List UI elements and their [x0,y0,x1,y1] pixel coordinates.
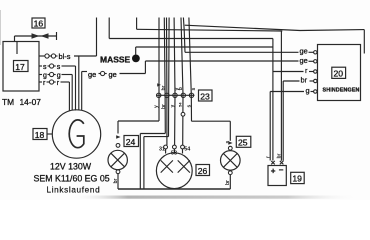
svg-text:54: 54 [178,102,183,107]
regulator pin labels [300,47,310,95]
svg-text:+: + [271,167,276,176]
svg-text:12V 130W: 12V 130W [50,162,92,172]
cluster wire column 3 [173,18,176,146]
wire MASSE up and right to battery plus column [136,47,273,55]
svg-text:g: g [43,72,47,79]
box 25 label [236,136,251,147]
box 23 label [199,90,213,101]
box 19 label [291,172,305,183]
lamp 24 (parking light) [108,144,127,174]
svg-text:ge: ge [300,56,308,65]
lamp 25 ground wire br [225,175,231,189]
svg-text:bl-s: bl-s [59,52,71,61]
svg-text:25: 25 [238,138,248,148]
svg-text:s: s [43,64,47,71]
svg-text:y: y [154,105,160,108]
plug connector symbol 16 [15,32,57,40]
lamp 24 ground wire br [113,174,119,189]
svg-text:Linkslaufend: Linkslaufend [47,186,101,195]
wire row bl-s with connector o-o [39,52,97,61]
svg-text:s: s [57,64,61,71]
headlight pin labels 31 58 54 [159,146,190,156]
wire row s-o-s [39,64,76,71]
inline connector on column 4 wire [181,112,185,116]
svg-text:16: 16 [34,19,44,29]
svg-text:−: − [279,166,284,175]
wire g down to generator [71,75,73,111]
scan edge left [0,10,1,45]
connector row circle 4 [181,93,185,97]
wire bl-s up to frame ground (top edge) [96,18,98,57]
svg-text:br: br [225,180,231,185]
cluster wire column 2 (triple) [164,18,169,146]
svg-text:ge: ge [109,70,117,79]
wire g from regulator down [270,92,314,161]
lamp 25 (tail light) [221,146,241,174]
wire r down to generator [68,82,70,111]
top feed wire H2 to battery plus column [109,18,273,39]
svg-text:54: 54 [184,146,190,152]
svg-text:MASSE: MASSE [100,54,131,64]
wire from connector 16 to box 17 [14,36,16,42]
svg-text:18: 18 [35,130,45,140]
connector row circle 2 [165,93,169,97]
regulator pin circles [314,51,317,94]
svg-text:SEM K11/60 EG 05: SEM K11/60 EG 05 [34,173,110,183]
top feed wire to right edge with end stub [185,25,364,53]
MASSE ground label and node [100,54,140,64]
svg-text:s: s [191,88,197,91]
wire color labels above connector row [157,83,197,90]
battery terminal connectors [271,161,283,165]
wire row g-o-g [39,72,72,79]
connector row circle 1 [157,93,161,97]
wire bl-s down to generator [78,56,80,111]
box 24 label [124,136,139,147]
svg-text:br: br [301,75,308,84]
wire ge1 from connector column to regulator pin 1 [183,18,313,53]
cluster wire column 1 [158,18,160,122]
svg-text:g: g [306,86,310,95]
wire br from regulator to battery minus [281,31,313,161]
svg-text:SHINDENGEN: SHINDENGEN [323,87,360,93]
ignition unit box 17 [3,42,39,92]
generator ge output wire with ge-o-ge label [82,70,146,111]
ground bus wire to lamp 25 [118,188,230,190]
cluster wire column 5 [189,18,192,122]
regulator box 20 SHINDENGEN [318,45,361,101]
wire row r-o-r [39,80,69,87]
wire column5 to lamp 25 [192,121,233,145]
svg-text:17: 17 [15,62,25,72]
svg-text:br: br [161,85,167,90]
svg-text:TM14-07: TM14-07 [2,97,41,107]
headlight 26 [156,145,192,189]
top feed wire H1 to right edge stub [137,18,283,32]
wire s down to generator [75,66,77,111]
svg-text:ge: ge [88,70,96,79]
wire color labels below connector row [154,102,193,109]
svg-text:s: s [186,105,192,108]
svg-text:19: 19 [292,174,302,184]
svg-text:b: b [178,87,184,90]
wire r from regulator to battery plus [273,39,314,161]
cluster wire column 4 [181,18,183,146]
connector row 23 line [156,94,195,96]
connector row circle 3 [173,93,177,97]
svg-text:ge: ge [300,47,308,56]
svg-text:24: 24 [126,137,136,147]
box 18 label [33,129,52,140]
svg-text:20: 20 [334,69,344,79]
svg-text:y: y [170,105,176,108]
svg-text:26: 26 [198,166,208,176]
box 26 label [196,165,210,176]
branch wires from column 2 to ground bus [140,134,168,189]
wire column1 to lamp 24 [116,121,159,139]
wire ge2 from generator to regulator pin 2 [145,61,313,74]
connector 16 box label [32,18,45,29]
svg-text:31: 31 [159,146,165,152]
battery terminal wire labels [266,153,283,158]
svg-text:r: r [266,156,272,158]
svg-text:58: 58 [171,151,177,157]
svg-text:br: br [113,178,119,183]
svg-text:br: br [277,153,283,158]
svg-text:br: br [161,104,167,109]
battery 19 [268,166,286,186]
connector row circle 5 [189,93,193,97]
svg-text:g: g [57,72,61,79]
generator G symbol [52,110,100,158]
svg-text:23: 23 [200,91,210,101]
